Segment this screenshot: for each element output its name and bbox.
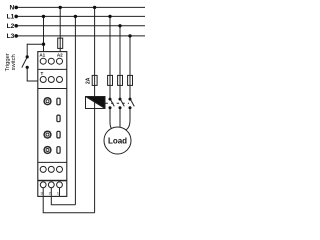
junction L1/F3 <box>108 15 111 18</box>
node N rail <box>15 6 145 8</box>
terminal row2 right <box>57 77 63 83</box>
linkage dashed <box>106 102 130 104</box>
wire trigger branch lower <box>26 67 28 81</box>
svg-text:Trigger: Trigger <box>5 53 11 71</box>
node L3 rail <box>15 35 145 37</box>
stem terminal 2 <box>50 188 52 197</box>
svg-text:switch: switch <box>11 54 17 70</box>
switch S1 lower contact dot <box>26 66 29 69</box>
wire trigger to T terminal <box>27 80 38 82</box>
terminal 2 <box>48 182 54 188</box>
fuse F4 <box>118 75 123 85</box>
switch S1 trigger blade <box>22 57 28 68</box>
wire terminal 2 loop <box>51 196 75 204</box>
indicator 3 <box>57 131 60 138</box>
wire terminal 3 loop <box>43 196 94 212</box>
wire drop L1 through fuse F3 to contact <box>109 16 111 98</box>
node dot L1 start <box>14 15 18 19</box>
node dot L2 start <box>14 24 18 28</box>
knob 1 <box>44 98 51 105</box>
svg-text:Load: Load <box>108 136 127 145</box>
fuse F1 2A <box>92 75 97 85</box>
terminal row3 mid <box>48 166 54 172</box>
contactor coil K1 <box>86 97 106 109</box>
fuse F5 <box>128 75 133 85</box>
svg-text:T: T <box>40 71 43 76</box>
svg-text:N: N <box>10 5 15 12</box>
svg-text:A2: A2 <box>57 52 63 57</box>
stem terminal 3 <box>42 188 44 197</box>
terminal A2 <box>57 58 63 64</box>
wire trigger branch horizontal <box>27 43 43 45</box>
wire drop L1 to relay output loop <box>74 16 76 204</box>
svg-text:3: 3 <box>40 191 42 195</box>
knob 3 <box>44 147 51 154</box>
terminal 1 <box>57 182 63 188</box>
terminal row2 mid <box>48 77 54 83</box>
knob 2 <box>44 131 51 138</box>
wire trigger branch upper <box>26 44 28 57</box>
divider 4 thick <box>38 180 67 182</box>
terminal row3 left <box>40 166 46 172</box>
svg-text:L1: L1 <box>7 14 15 21</box>
divider 2 <box>38 88 67 90</box>
wire drop N through fuse F1 and coil down to loop <box>94 7 96 212</box>
node L2 rail <box>15 25 145 27</box>
junction trigger tee <box>42 43 45 46</box>
wire drop N to A2 through fuse F2 <box>59 7 61 51</box>
node L1 rail <box>15 15 145 17</box>
wire drop L2 through fuse F4 to contact <box>119 26 121 98</box>
contact K1-2 <box>119 98 122 101</box>
stem terminal 1 <box>59 188 61 197</box>
junction N/F2 <box>59 6 62 9</box>
contact K1-3 <box>129 98 132 101</box>
terminal 3 <box>40 182 46 188</box>
terminal A1 <box>40 58 46 64</box>
junction L3/F5 <box>128 34 131 37</box>
indicator 1 <box>57 98 60 105</box>
timer module U1 body <box>38 52 67 197</box>
svg-text:A1: A1 <box>39 52 45 57</box>
terminal row3 right <box>57 166 63 172</box>
wire contact 3 to load <box>126 108 130 130</box>
terminal T <box>40 77 46 83</box>
wire drop L3 through fuse F5 to contact <box>129 36 131 98</box>
wire contact 1 to load <box>110 108 113 130</box>
junction L1/loop <box>74 15 77 18</box>
wire contact 2 to load <box>119 108 121 127</box>
indicator 2 <box>57 115 60 122</box>
fuse F3 <box>108 75 113 85</box>
indicator 4 <box>57 147 60 154</box>
divider 3 <box>38 161 67 163</box>
node dot L3 start <box>14 34 18 38</box>
svg-text:L2: L2 <box>7 23 15 30</box>
contact K1-1 <box>109 98 112 101</box>
fuse F2 <box>58 38 63 48</box>
svg-text:1: 1 <box>57 191 59 195</box>
wire drop L1 to A1 <box>43 16 45 51</box>
terminal mid top <box>48 58 54 64</box>
node dot N start <box>14 6 18 10</box>
svg-text:2: 2 <box>49 191 51 195</box>
switch S1 upper contact dot <box>26 55 29 58</box>
junction N/F1 <box>93 6 96 9</box>
junction L1/A1 <box>42 15 45 18</box>
divider 1 <box>38 68 67 70</box>
load M1 circle <box>104 127 131 154</box>
junction L2/F4 <box>118 24 121 27</box>
svg-text:2A: 2A <box>86 77 92 84</box>
svg-text:L3: L3 <box>7 33 15 40</box>
